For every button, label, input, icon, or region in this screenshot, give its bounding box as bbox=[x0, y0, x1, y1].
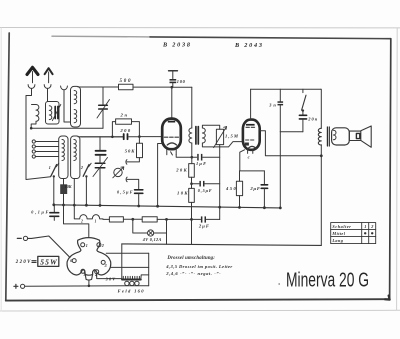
svg-text:4V 0,12A: 4V 0,12A bbox=[142, 237, 162, 242]
wire 450 top bbox=[239, 171, 241, 181]
wire to 2uF D bbox=[192, 218, 201, 220]
mains switch arm bbox=[28, 236, 70, 258]
FRAME bbox=[52, 35, 150, 38]
plus wire bbox=[25, 285, 149, 288]
wire osc tank top bbox=[78, 136, 123, 138]
wire varcap C1 top bbox=[102, 87, 104, 104]
wire node to V1 top cap bbox=[171, 87, 173, 118]
varcap C2 plates bbox=[95, 163, 105, 168]
wire V1 cathode to bus bbox=[158, 144, 163, 207]
mains terminal plus bbox=[14, 284, 25, 288]
capacitor 2uF heater bbox=[201, 216, 206, 222]
svg-text:1: 1 bbox=[95, 219, 97, 223]
resistor Rb bbox=[142, 217, 157, 222]
rotary bottom tab bbox=[85, 274, 92, 280]
trimmer cap antenna bbox=[55, 107, 58, 119]
wire Ra to Rb bbox=[123, 218, 142, 220]
hook pickup a bbox=[126, 160, 127, 165]
svg-text:20K: 20K bbox=[175, 167, 187, 172]
wire top bus to OT bbox=[320, 89, 322, 128]
wire right drop to plus bbox=[148, 253, 150, 285]
bus node dots bbox=[52, 203, 281, 209]
switch arm S1 bbox=[51, 163, 59, 177]
tube V1 legs bbox=[167, 149, 176, 155]
speaker neck bbox=[349, 131, 361, 140]
node dot plus wire bbox=[88, 285, 91, 288]
node dot lamp right bbox=[165, 218, 168, 221]
lamp bypass wires bbox=[133, 219, 167, 244]
wire to 50K bbox=[138, 137, 140, 144]
svg-text:2: 2 bbox=[80, 165, 83, 170]
svg-text:20n: 20n bbox=[307, 116, 318, 121]
svg-text:2μF: 2μF bbox=[249, 186, 260, 191]
tube V1 anode bar bbox=[168, 121, 175, 123]
coil L3 loops upper bbox=[74, 91, 77, 104]
table dot M2 bbox=[371, 232, 373, 234]
wire 100 to node bbox=[172, 83, 174, 87]
svg-text:200: 200 bbox=[119, 128, 131, 133]
svg-text:Schalter: Schalter bbox=[332, 224, 351, 229]
tube V1 cathode arc bbox=[167, 143, 176, 145]
transformer Feld 160 primary bbox=[122, 276, 141, 279]
wire V2 top cap bbox=[250, 89, 252, 119]
wire varcap C1 bottom bbox=[102, 110, 104, 129]
table dot M1 bbox=[364, 232, 366, 234]
pickup symbol bbox=[113, 167, 124, 178]
coil L3 RF box bbox=[71, 86, 81, 127]
capacitor 20n bbox=[299, 115, 306, 119]
svg-text:1,5M: 1,5M bbox=[225, 134, 239, 139]
svg-text:100: 100 bbox=[177, 79, 186, 84]
transformer Feld 160 secondary loops bbox=[125, 281, 139, 285]
node dot lamp left bbox=[131, 218, 134, 221]
choke Drossel winding bbox=[74, 205, 103, 219]
wire S1 to bus bbox=[53, 176, 55, 204]
svg-text:10K: 10K bbox=[177, 191, 188, 196]
top supply bus bbox=[251, 88, 321, 90]
wire Feld right end bbox=[141, 275, 149, 280]
wire antenna2 down bbox=[47, 89, 49, 102]
rotary selector body bbox=[67, 238, 111, 276]
wire L4 to R 10K bbox=[63, 179, 65, 185]
equals dash 220V bbox=[32, 261, 36, 263]
wire 0,5uF B right bbox=[205, 183, 220, 185]
coil L4 oscillator box bbox=[59, 136, 68, 179]
rotary contact 4 bbox=[95, 270, 99, 274]
node dot under 100 bbox=[171, 86, 174, 89]
trimmer arrow bbox=[52, 104, 60, 120]
band switch row 3 bbox=[32, 150, 58, 153]
wire contact3 right bbox=[106, 252, 149, 254]
svg-text:0,5μF: 0,5μF bbox=[198, 188, 212, 193]
svg-text:1: 1 bbox=[86, 243, 88, 248]
tube V2 bottom arc bbox=[248, 146, 256, 148]
wire hook b to 0,5uF bbox=[127, 179, 139, 189]
svg-text:55W: 55W bbox=[40, 258, 58, 267]
band switch row 2 bbox=[32, 145, 58, 148]
wire lower bus left drop bbox=[121, 244, 123, 280]
output transformer core bbox=[327, 127, 329, 146]
band switch row 1 bbox=[32, 140, 58, 143]
node dot 1uF line bbox=[191, 156, 194, 159]
coil L4 loops bbox=[62, 140, 64, 161]
svg-text:2: 2 bbox=[80, 220, 83, 224]
wire rotary top feed bbox=[64, 205, 89, 237]
svg-text:10K: 10K bbox=[65, 184, 73, 189]
wire node to IF primary bbox=[172, 86, 192, 88]
wire V2 cathode bbox=[240, 150, 265, 171]
svg-text:5: 5 bbox=[84, 272, 86, 277]
wire 3n to 20n bottom link bbox=[280, 131, 303, 133]
coil L5 oscillator box bbox=[71, 136, 80, 179]
resistor 450 bbox=[236, 181, 242, 195]
resistor 10K left (dark) bbox=[60, 184, 67, 194]
speaker neck magnet bbox=[356, 133, 359, 138]
IF transformer T1 core bbox=[196, 127, 198, 144]
node dot A bbox=[30, 127, 33, 130]
wire 10K to bus bbox=[63, 194, 65, 205]
title comma mark bbox=[278, 283, 280, 285]
rotary contact 1 bbox=[81, 243, 85, 247]
wire rotary right lower bbox=[111, 266, 149, 268]
wire 500 to node bbox=[133, 86, 172, 88]
wire S2 to bus bbox=[85, 176, 87, 205]
wire ground return tuned circuit 1 bbox=[31, 127, 103, 129]
capacitor 2uF cathode bbox=[261, 185, 267, 189]
tube V2 anode bar bbox=[246, 124, 255, 126]
trimmer cap 2 (dark bars) bbox=[96, 151, 106, 155]
svg-text:30V: 30V bbox=[105, 277, 117, 282]
rotary contact 2 bbox=[97, 243, 101, 247]
box 55W bbox=[38, 256, 59, 266]
wire varcap C2 bottom to bus bbox=[99, 156, 101, 206]
lamp 4V 0,12A bbox=[148, 230, 154, 236]
socket hook J3 bbox=[61, 86, 68, 90]
speaker pot bbox=[332, 128, 350, 145]
svg-text:50K: 50K bbox=[125, 149, 135, 154]
band switch row 4 bbox=[32, 155, 58, 158]
resistor R 500 bbox=[119, 84, 134, 89]
wire contact4 to transformer bbox=[97, 274, 122, 279]
wire L3 top to R500 bbox=[78, 86, 119, 88]
mains terminal minus bbox=[17, 236, 27, 240]
wire to 2uF C bbox=[263, 171, 265, 184]
coil L5 loops bbox=[74, 140, 76, 161]
wire IF primary bottom bbox=[191, 143, 193, 164]
wire 20n to anode line bbox=[302, 119, 304, 131]
wire Rb to 2uF line bbox=[157, 218, 191, 220]
rotary contact 5 bbox=[81, 269, 85, 273]
capacitor 200 bbox=[124, 134, 128, 139]
wire IF secondary bottom bbox=[202, 143, 219, 147]
resistor 50K bbox=[137, 143, 143, 157]
hook pickup b bbox=[126, 177, 127, 182]
svg-text:2: 2 bbox=[370, 224, 373, 229]
wire 3n chain to bus bbox=[279, 132, 281, 208]
node dot grid1 bbox=[138, 135, 141, 138]
svg-text:Lang: Lang bbox=[331, 238, 343, 243]
wire 50K to hook bbox=[127, 158, 139, 162]
resistor 20K bbox=[189, 164, 195, 178]
capacitor 100 bbox=[170, 79, 177, 83]
tube V2 grid dashes bbox=[246, 139, 254, 141]
node dot 2n left bbox=[111, 136, 114, 139]
svg-text:c: c bbox=[248, 154, 250, 159]
antenna A1 shaft bbox=[32, 72, 34, 83]
wire 10K chain to lower bus bbox=[191, 202, 193, 244]
wire antenna1 to left rail bbox=[26, 89, 51, 180]
capacitor 3n bbox=[278, 89, 284, 132]
wire grid V2 bbox=[220, 142, 243, 147]
resistor 2n bbox=[116, 119, 132, 124]
wire to 0,5uF B bbox=[192, 183, 200, 185]
capacitor 0,5uF A bbox=[135, 190, 143, 194]
capacitor 0,5uF B bbox=[199, 181, 204, 187]
varcap C2 arrow bbox=[93, 158, 108, 177]
varcap C1 arrow bbox=[97, 100, 110, 119]
wire 1,5M node down bbox=[219, 147, 221, 220]
wire rotary to plus wire bbox=[88, 280, 90, 286]
wire 2n loop bbox=[112, 122, 139, 137]
svg-text:4: 4 bbox=[94, 272, 97, 277]
heater line left bbox=[103, 218, 110, 220]
wire IF secondary top to 1,5M bbox=[202, 125, 219, 129]
svg-text:2μF: 2μF bbox=[198, 223, 209, 228]
svg-text:2: 2 bbox=[101, 243, 104, 248]
tube V1 grid dashes bbox=[164, 136, 178, 138]
wire V1 leg to 1uF line bbox=[176, 155, 197, 157]
wire IF primary top bbox=[191, 87, 193, 128]
wire 2uF C to bus bbox=[263, 189, 265, 208]
grid line through 200 bbox=[81, 136, 163, 138]
svg-text:1: 1 bbox=[364, 224, 366, 229]
svg-text:6: 6 bbox=[70, 258, 72, 263]
PAGE-EDGES bbox=[0, 27, 400, 29]
table Schalter bbox=[331, 223, 376, 244]
wire antenna3 down bbox=[64, 90, 71, 122]
capacitor 1uF bbox=[197, 154, 202, 161]
wire OT primary down bbox=[320, 145, 322, 246]
coil L3 loops lower bbox=[74, 110, 77, 123]
socket hook J1 bbox=[28, 85, 35, 89]
switch arm S2 bbox=[83, 163, 91, 177]
node dot 0,5uF B bbox=[190, 182, 193, 185]
socket hook J2 bbox=[44, 85, 51, 89]
wire 0,5uF A to bus bbox=[138, 194, 140, 206]
svg-text:1μF: 1μF bbox=[196, 161, 206, 166]
coil L1 antenna primary bbox=[31, 105, 39, 129]
node anode junction bbox=[320, 154, 323, 157]
output transformer secondary loops bbox=[333, 130, 336, 140]
wire 1,5M bottom bbox=[219, 145, 221, 147]
tube V1 B2038 envelope bbox=[162, 119, 181, 150]
antenna A2 shaft bbox=[48, 72, 50, 83]
main ground bus bbox=[54, 205, 280, 208]
svg-text:Minerva 20 G: Minerva 20 G bbox=[286, 269, 369, 292]
coil L2 loops bbox=[49, 106, 52, 120]
antenna A1 arrow bbox=[27, 67, 38, 74]
tube V2 legs bbox=[248, 150, 253, 154]
rotary contact 6 bbox=[72, 259, 76, 263]
wire 1uF right bbox=[203, 156, 220, 158]
wire V2 anode out bbox=[260, 131, 322, 156]
svg-text:500: 500 bbox=[120, 79, 132, 84]
svg-text:4,3,5 Drossel im posit. Leiter: 4,3,5 Drossel im posit. Leiter bbox=[165, 264, 232, 269]
wire L5 to bus bbox=[73, 179, 75, 206]
svg-text:Drossel umschaltung:: Drossel umschaltung: bbox=[166, 256, 215, 261]
speaker cone bbox=[361, 126, 371, 147]
resistor 10K right bbox=[189, 188, 195, 202]
short antenna T symbol bbox=[169, 71, 178, 79]
svg-text:450: 450 bbox=[225, 186, 237, 191]
tube V2 screen dashes bbox=[246, 126, 255, 128]
antenna A2 arrow bbox=[45, 68, 53, 74]
output transformer primary loops bbox=[318, 128, 321, 145]
capacitor 0,1uF bbox=[50, 205, 59, 221]
wire trimmer2 top bbox=[99, 137, 101, 150]
tube V2 B2043 envelope bbox=[243, 120, 260, 150]
tube V2 cathode blob bbox=[245, 143, 249, 146]
svg-text:2n: 2n bbox=[120, 113, 128, 118]
varcap C1 plates bbox=[99, 105, 108, 109]
svg-text:3: 3 bbox=[104, 263, 107, 268]
svg-text:Mittel: Mittel bbox=[331, 231, 345, 236]
wire 2uF D right bbox=[206, 218, 219, 220]
node dot heater-2uF bbox=[190, 218, 193, 221]
lower return wire bbox=[122, 244, 321, 246]
wire 450 bottom to bus bbox=[239, 196, 241, 208]
potentiometer 1,5M bbox=[214, 127, 227, 148]
IF transformer T1 primary loops bbox=[189, 128, 192, 143]
coil L2 box antenna secondary bbox=[46, 102, 60, 125]
rotary contact 3 bbox=[101, 260, 105, 264]
svg-text:2,4,6 -”- -”- negat. -”-: 2,4,6 -”- -”- negat. -”- bbox=[165, 271, 221, 276]
svg-text:220V: 220V bbox=[15, 260, 31, 265]
wire 20K to 10K bbox=[191, 177, 193, 188]
tone switch S2 bbox=[302, 89, 306, 114]
IF transformer T1 secondary loops bbox=[202, 128, 205, 143]
resistor Ra bbox=[109, 217, 123, 222]
svg-text:1: 1 bbox=[49, 165, 51, 170]
